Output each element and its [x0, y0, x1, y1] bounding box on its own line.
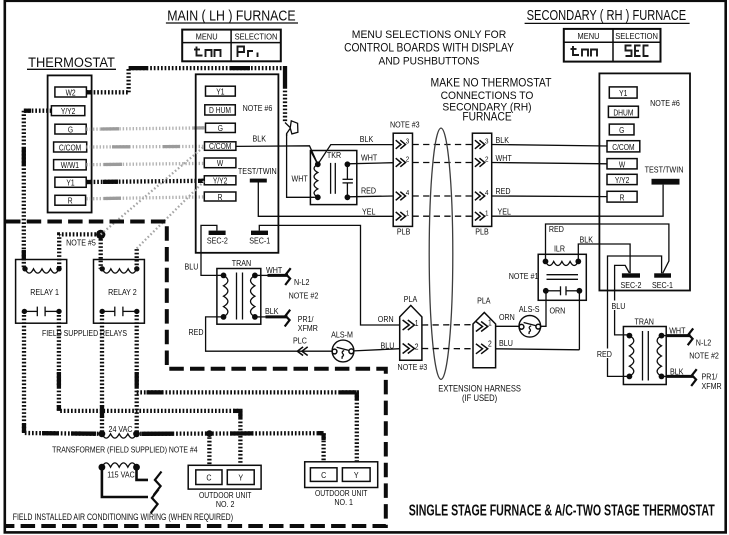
- wire relay1 right contact to outdoor unit 2 Y: [59, 311, 241, 465]
- wire TRAN secondary BLK to PR1/XFMR: [662, 367, 722, 392]
- svg-text:RED: RED: [597, 349, 612, 359]
- terminal R (thermostat): [55, 195, 86, 205]
- svg-text:NOTE #6: NOTE #6: [243, 103, 273, 113]
- svg-text:AND PUSHBUTTONS: AND PUSHBUTTONS: [379, 55, 480, 68]
- svg-text:SINGLE STAGE FURNACE & A/C-TWO: SINGLE STAGE FURNACE & A/C-TWO STAGE THE…: [409, 502, 715, 520]
- label NOTE #1: [509, 271, 539, 281]
- svg-text:Y/Y2: Y/Y2: [61, 106, 76, 116]
- svg-text:TRAN: TRAN: [635, 317, 655, 327]
- field wiring dashed border: [6, 222, 386, 527]
- svg-text:TRANSFORMER (FIELD SUPPLIED) N: TRANSFORMER (FIELD SUPPLIED) NOTE #4: [52, 445, 198, 455]
- svg-text:SELECTION: SELECTION: [235, 32, 278, 42]
- svg-text:TKR: TKR: [327, 151, 342, 161]
- TRAN (secondary) windings: [627, 333, 665, 380]
- RELAY 1 contact: [22, 307, 62, 317]
- relay RELAY 1 box: [16, 260, 67, 324]
- dashed wire PLB to PLB pin1: [413, 215, 473, 217]
- ILR contact: [543, 286, 582, 295]
- terminal DHUM (secondary): [608, 106, 638, 117]
- svg-text:SEC-1: SEC-1: [249, 236, 270, 246]
- diagonal wire junction to C/COM (gray): [101, 146, 205, 234]
- LCD text tnn (secondary menu): [571, 46, 598, 57]
- terminal G (secondary): [609, 124, 634, 135]
- svg-text:XFMR: XFMR: [702, 382, 722, 392]
- label BLK (before PLB pin3): [360, 134, 374, 144]
- svg-text:Y1: Y1: [619, 89, 627, 99]
- RELAY 1 coil: [22, 266, 61, 273]
- SEC-1 terminal bar (secondary): [652, 273, 673, 290]
- ILR coil: [543, 259, 582, 266]
- wire R thermostat to board: [86, 197, 204, 199]
- svg-text:Y/Y2: Y/Y2: [615, 175, 630, 185]
- svg-text:Y1: Y1: [66, 178, 74, 188]
- svg-text:C/COM: C/COM: [59, 143, 81, 153]
- svg-text:BLK: BLK: [265, 307, 279, 317]
- wire W2 to flag connector: [86, 66, 285, 123]
- svg-text:NOTE #3: NOTE #3: [398, 362, 428, 372]
- svg-text:SEC-1: SEC-1: [652, 280, 673, 290]
- wire ILR coil to SEC-2 (BLK): [578, 235, 630, 274]
- svg-text:WHT: WHT: [669, 326, 685, 336]
- main furnace control board box: [196, 74, 279, 253]
- dashed wire PLB to PLB pin4: [413, 195, 473, 197]
- terminal W (main board): [204, 158, 236, 168]
- PLA secondary pin 2: [476, 339, 492, 354]
- svg-text:2: 2: [485, 156, 489, 164]
- terminal Y/Y2 (main board): [204, 176, 236, 186]
- right PLB pin 4: [475, 190, 489, 201]
- svg-text:2: 2: [415, 342, 419, 352]
- title SECONDARY (RH) FURNACE: [525, 6, 690, 23]
- wire right PLB pin1 to secondary TEST/TWIN (YEL): [492, 185, 663, 217]
- wire relay2 right contact to 24VAC and outdoor unit 1 Y: [137, 311, 357, 461]
- PLB pin 1: [396, 210, 410, 221]
- svg-text:W2: W2: [66, 88, 76, 98]
- svg-text:RED: RED: [189, 328, 204, 338]
- svg-text:D HUM: D HUM: [209, 106, 231, 116]
- svg-text:DHUM: DHUM: [613, 108, 633, 118]
- PLA secondary pin 1: [476, 318, 492, 332]
- PLA main pin 2: [403, 342, 419, 354]
- label WHT (left of TKR): [292, 174, 308, 184]
- svg-text:ILR: ILR: [554, 244, 565, 254]
- label TRANSFORMER (FIELD SUPPLIED) NOTE #4: [52, 445, 198, 455]
- svg-text:MENU SELECTIONS ONLY FOR: MENU SELECTIONS ONLY FOR: [352, 29, 506, 42]
- svg-text:N-L2: N-L2: [696, 338, 711, 348]
- wire ILR coil to SEC-1 (RED): [546, 224, 669, 273]
- terminal R (main board): [204, 192, 236, 202]
- transformer (field supplied) 115VAC winding: [99, 463, 140, 480]
- svg-text:1: 1: [406, 210, 410, 218]
- terminal C/COM (main board): [205, 142, 236, 152]
- right PLB pin 1: [475, 210, 489, 221]
- svg-text:N-L2: N-L2: [294, 277, 309, 287]
- RELAY 2 contact: [100, 307, 140, 317]
- svg-text:R: R: [68, 196, 73, 206]
- dashed wire PLB to PLB pin3: [413, 144, 473, 146]
- wire SEC-1 to secondary TRAN bottom (RED): [608, 256, 662, 376]
- svg-text:NOTE #5: NOTE #5: [66, 238, 96, 248]
- connector PLC chevrons: [293, 336, 308, 355]
- terminal D HUM (main board): [205, 105, 236, 116]
- svg-text:24 VAC: 24 VAC: [108, 424, 132, 434]
- wire junction to relay2 coil left: [99, 239, 103, 269]
- wire relay2 coil right up-stub: [135, 249, 139, 269]
- svg-text:NO. 1: NO. 1: [334, 497, 353, 507]
- label TEST/TWIN (main board): [238, 166, 277, 176]
- TEST/TWIN terminal bar (main board): [250, 179, 267, 183]
- svg-text:MAKE NO THERMOSTAT: MAKE NO THERMOSTAT: [431, 77, 552, 90]
- svg-text:BLK: BLK: [496, 135, 510, 145]
- svg-text:XFMR: XFMR: [298, 324, 318, 334]
- svg-text:MENU: MENU: [196, 32, 218, 42]
- label ORN (main PLA): [378, 314, 394, 324]
- svg-text:G: G: [619, 126, 624, 136]
- wire Y1 thermostat to board Y/Y2: [86, 181, 204, 182]
- right PLB pin 2: [475, 156, 489, 167]
- wire 115VAC hot lead: [102, 467, 159, 513]
- secondary furnace control board box: [599, 73, 690, 290]
- svg-text:BLU: BLU: [499, 339, 513, 349]
- svg-text:BLK: BLK: [670, 367, 684, 377]
- LCD text tnn (main menu): [194, 47, 221, 58]
- wire ALS-S to ILR contact left (ORN): [539, 291, 566, 327]
- svg-text:W: W: [619, 160, 625, 170]
- wire PLA pin2 to ILR contact right (BLU): [496, 291, 580, 350]
- svg-text:BLK: BLK: [253, 134, 267, 144]
- svg-text:Y: Y: [238, 473, 243, 483]
- junction NOTE #5: [66, 230, 105, 248]
- svg-text:NO. 2: NO. 2: [216, 499, 235, 509]
- wire TRAN main BLK to PR1/XFMR: [255, 307, 318, 334]
- svg-text:MENU: MENU: [577, 32, 599, 42]
- label BLU (secondary PLA): [499, 339, 513, 349]
- LCD text SEC (secondary selection): [626, 46, 649, 57]
- svg-text:TEST/TWIN: TEST/TWIN: [238, 166, 277, 176]
- connector PLB (secondary): [472, 133, 491, 236]
- svg-text:WHT: WHT: [266, 265, 282, 275]
- wire TEST/TWIN to PLB pin1 (YEL): [258, 183, 393, 217]
- svg-text:WHT: WHT: [361, 153, 377, 163]
- svg-text:WHT: WHT: [496, 153, 512, 163]
- terminal Y/Y2 (secondary): [607, 174, 637, 185]
- svg-text:3: 3: [406, 138, 410, 146]
- wire TRAN main RED to ALS-M and PLA pin2: [189, 317, 400, 351]
- menu table main furnace: [182, 30, 281, 62]
- svg-text:MAIN ( LH ) FURNACE: MAIN ( LH ) FURNACE: [167, 7, 295, 23]
- terminal W/W1: [54, 160, 87, 171]
- svg-text:NOTE #2: NOTE #2: [289, 291, 319, 301]
- svg-text:BLU: BLU: [185, 262, 199, 272]
- TKR capacitor contact: [343, 161, 353, 200]
- svg-text:YEL: YEL: [498, 207, 512, 217]
- relay ILR box: [538, 244, 586, 301]
- transformer (field supplied) 24VAC winding: [99, 424, 140, 438]
- svg-text:NOTE #3: NOTE #3: [390, 120, 420, 130]
- svg-text:BLU: BLU: [612, 301, 626, 311]
- svg-text:ORN: ORN: [550, 306, 566, 316]
- terminal R (secondary): [607, 191, 637, 202]
- wire 24VAC to outdoor units C: [137, 430, 324, 465]
- svg-text:SEC-2: SEC-2: [207, 236, 228, 246]
- wire W/W1 thermostat to board W: [86, 163, 204, 164]
- transformer TRAN (secondary) box: [623, 317, 666, 385]
- svg-text:Y1: Y1: [216, 87, 224, 97]
- title THERMOSTAT: [27, 55, 116, 71]
- switch ALS-S: [519, 304, 541, 337]
- label extension harness: [438, 383, 521, 404]
- svg-text:C/COM: C/COM: [612, 142, 634, 152]
- diagonal wire relay2 coil to Y/Y2 (gray): [137, 181, 205, 249]
- switch ALS-M: [331, 330, 354, 362]
- label RED (TKR right): [361, 186, 376, 196]
- svg-text:1: 1: [415, 318, 419, 328]
- svg-text:RELAY 1: RELAY 1: [30, 287, 59, 297]
- relay TKR box: [310, 151, 356, 205]
- label TEST/TWIN (secondary): [645, 165, 684, 175]
- terminal G (main board): [206, 123, 236, 133]
- terminal Y1 (secondary): [609, 87, 637, 98]
- terminal W (secondary): [607, 159, 637, 170]
- svg-text:YEL: YEL: [362, 207, 376, 217]
- svg-text:BLU: BLU: [381, 341, 395, 351]
- label BLU (main): [185, 262, 199, 272]
- transformer TRAN (main) box: [217, 259, 261, 325]
- label BLK (main board): [253, 134, 267, 144]
- terminal C/COM (secondary): [607, 141, 640, 152]
- terminal Y1 (thermostat): [55, 177, 86, 188]
- svg-text:FURNACE: FURNACE: [462, 111, 511, 124]
- svg-text:W: W: [217, 159, 223, 169]
- svg-text:PR1/: PR1/: [298, 314, 315, 324]
- svg-text:ORN: ORN: [499, 312, 515, 322]
- label YEL (main): [362, 207, 376, 217]
- wire C/COM to TKR coil (BLK): [236, 145, 393, 165]
- svg-text:W/W1: W/W1: [61, 160, 79, 170]
- TKR coil: [311, 151, 321, 200]
- svg-text:4: 4: [406, 190, 410, 198]
- flag quick-connect symbol: [285, 121, 298, 136]
- right PLB pin 3: [475, 138, 489, 149]
- svg-text:115 VAC: 115 VAC: [107, 470, 135, 480]
- outdoor unit no.1 box: [305, 462, 378, 507]
- svg-text:PR1/: PR1/: [702, 372, 719, 382]
- RELAY 2 coil: [100, 266, 140, 273]
- wire right PLB pin3 to secondary C/COM (BLK): [492, 135, 608, 146]
- svg-text:PLB: PLB: [475, 227, 488, 237]
- note text menu selections: [344, 29, 515, 68]
- svg-text:FIELD SUPPLIED RELAYS: FIELD SUPPLIED RELAYS: [42, 329, 127, 339]
- svg-text:SEC-2: SEC-2: [621, 280, 642, 290]
- svg-text:NOTE #6: NOTE #6: [650, 98, 680, 108]
- terminal W2: [55, 87, 87, 97]
- svg-text:TEST/TWIN: TEST/TWIN: [645, 165, 684, 175]
- svg-text:R: R: [218, 192, 223, 202]
- svg-text:R: R: [620, 193, 625, 203]
- dashed wire PLA to PLA pin2: [422, 348, 473, 350]
- ILR core: [547, 275, 579, 280]
- PLB pin 3: [396, 138, 410, 149]
- wire Y/Y2 thermostat to relay1 coil: [24, 111, 52, 269]
- wire TRAN secondary WHT to N-L2: [662, 326, 712, 348]
- LCD text Pri (main selection): [238, 47, 258, 58]
- wire relay2 left contact to 24VAC junction: [100, 311, 104, 433]
- label NOTE #6 (secondary): [650, 98, 680, 108]
- label NOTE #6 (main board): [243, 103, 273, 113]
- svg-text:FIELD INSTALLED AIR CONDITIONI: FIELD INSTALLED AIR CONDITIONING WIRING …: [13, 512, 234, 522]
- title MAIN (LH) FURNACE: [166, 7, 298, 23]
- svg-text:PLC: PLC: [293, 336, 307, 346]
- connector PLA (secondary): [473, 296, 496, 368]
- outdoor unit no.2 box: [188, 465, 261, 509]
- svg-text:Y: Y: [354, 470, 359, 480]
- svg-text:RED: RED: [361, 186, 376, 196]
- svg-text:C: C: [321, 470, 326, 480]
- thermostat box: [48, 75, 92, 212]
- wire junction to relay1 coil right: [59, 234, 96, 268]
- title single stage furnace: [409, 502, 715, 520]
- PLB pin 4: [396, 190, 410, 201]
- wire C/COM thermostat to board: [86, 145, 204, 149]
- TRAN (main) windings: [221, 273, 258, 320]
- SEC-2 terminal bar (main board): [207, 231, 228, 246]
- wire relay1 left contact to 24VAC: [24, 311, 102, 433]
- svg-text:BLK: BLK: [360, 134, 374, 144]
- relay RELAY 2 box: [94, 260, 145, 324]
- svg-text:ORN: ORN: [378, 314, 394, 324]
- SEC-2 terminal bar (secondary): [621, 273, 642, 290]
- label field installed air conditioning wiring: [13, 512, 234, 522]
- wire SEC-1 to PLA pin1 (ORN): [259, 225, 399, 325]
- terminal Y/Y2 (thermostat): [51, 106, 84, 116]
- label NOTE #2 (main): [289, 291, 319, 301]
- svg-text:PLA: PLA: [404, 294, 418, 304]
- terminal Y1 (main board): [206, 86, 236, 96]
- svg-text:G: G: [68, 125, 73, 135]
- svg-text:RED: RED: [496, 186, 511, 196]
- TRAN (main) core: [237, 273, 243, 320]
- SEC-1 terminal bar (main board): [249, 231, 270, 246]
- PLA main pin 1: [403, 318, 419, 330]
- TKR core: [331, 163, 336, 194]
- svg-text:C: C: [206, 473, 211, 483]
- wire TRAN main WHT to N-L2: [255, 265, 310, 287]
- svg-text:Y/Y2: Y/Y2: [213, 176, 228, 186]
- svg-text:BLK: BLK: [580, 235, 594, 245]
- svg-text:NOTE #2: NOTE #2: [689, 351, 719, 361]
- svg-text:ALS-S: ALS-S: [519, 304, 540, 314]
- wire SEC-2 to TRAN top-left (BLU): [201, 225, 224, 275]
- wire TKR to PLB pin2 (WHT): [347, 163, 393, 164]
- PLB pin 2: [396, 156, 410, 167]
- svg-text:C/COM: C/COM: [209, 142, 231, 152]
- svg-text:ALS-M: ALS-M: [331, 330, 353, 340]
- dashed wire PLA to PLA pin1: [422, 324, 473, 326]
- wire 115VAC neutral lead: [137, 467, 162, 495]
- wire TKR to PLB pin4 (RED): [347, 195, 393, 198]
- svg-text:CONTROL BOARDS WITH DISPLAY: CONTROL BOARDS WITH DISPLAY: [344, 42, 515, 55]
- svg-text:PLB: PLB: [397, 227, 410, 237]
- TEST/TWIN terminal bar (secondary): [652, 179, 680, 185]
- wire SEC-2 to secondary TRAN top (BLU): [615, 265, 630, 335]
- connector PLB (main): [390, 120, 420, 237]
- note text make no thermostat connections: [431, 77, 552, 124]
- svg-text:NOTE #1: NOTE #1: [509, 271, 539, 281]
- svg-text:TRAN: TRAN: [232, 259, 252, 269]
- wire G thermostat to board: [86, 128, 204, 129]
- svg-text:RED: RED: [549, 224, 564, 234]
- wire right PLB pin2 to secondary W (WHT): [492, 153, 608, 164]
- svg-text:1: 1: [488, 318, 492, 328]
- label NOTE #2 (secondary): [689, 351, 719, 361]
- dashed wire PLB to PLB pin2: [413, 162, 473, 164]
- svg-text:2: 2: [488, 339, 492, 349]
- terminal C/COM (thermostat): [54, 142, 87, 152]
- svg-text:3: 3: [485, 138, 489, 146]
- svg-text:SELECTION: SELECTION: [615, 32, 658, 42]
- wire PLA secondary pin1 to ALS-S: [496, 325, 519, 327]
- label WHT (TKR right): [361, 153, 377, 163]
- label RED (secondary): [597, 349, 615, 360]
- svg-text:SECONDARY ( RH ) FURNACE: SECONDARY ( RH ) FURNACE: [527, 6, 687, 23]
- wire flag to TKR coil (WHT): [287, 134, 315, 198]
- svg-text:WHT: WHT: [292, 174, 308, 184]
- menu table secondary furnace: [564, 29, 661, 62]
- svg-text:PLA: PLA: [477, 296, 491, 306]
- svg-text:(IF USED): (IF USED): [462, 392, 497, 403]
- label BLU (secondary): [610, 301, 626, 312]
- svg-text:G: G: [218, 124, 223, 134]
- wire right PLB pin4 to secondary R (RED): [492, 186, 608, 196]
- extension harness ellipse: [429, 128, 453, 379]
- label FIELD SUPPLIED RELAYS: [42, 329, 127, 339]
- svg-text:2: 2: [406, 156, 410, 164]
- svg-text:THERMOSTAT: THERMOSTAT: [28, 55, 115, 71]
- terminal G (thermostat): [55, 124, 86, 134]
- svg-text:1: 1: [485, 210, 489, 218]
- svg-text:4: 4: [485, 190, 489, 198]
- TRAN (secondary) core: [643, 331, 649, 381]
- svg-text:RELAY 2: RELAY 2: [108, 287, 137, 297]
- connector PLA (main): [398, 294, 428, 372]
- label ORN (secondary PLA): [499, 312, 515, 322]
